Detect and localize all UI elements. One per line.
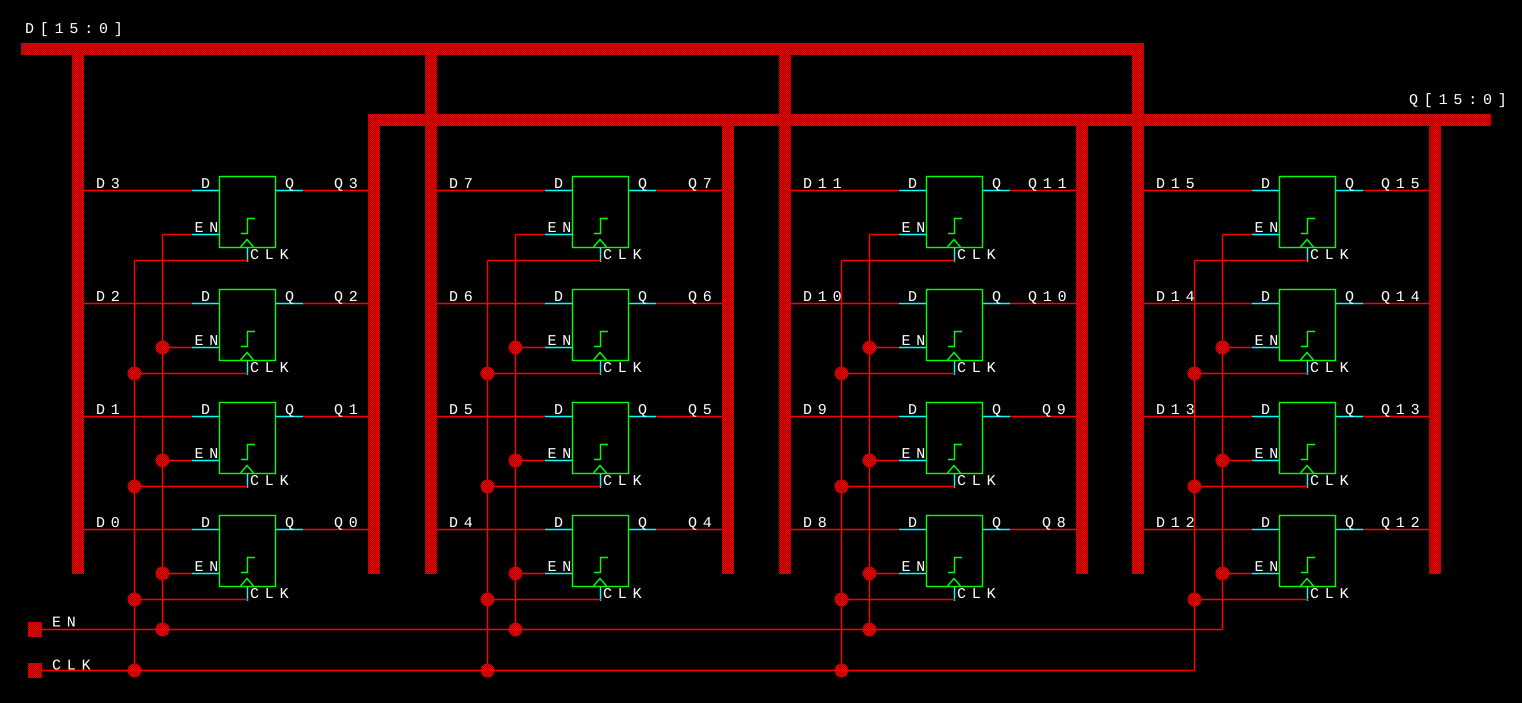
svg-text:CLK: CLK [603, 586, 647, 603]
svg-text:EN: EN [52, 615, 82, 632]
svg-text:CLK: CLK [1310, 360, 1354, 377]
svg-text:D9: D9 [803, 402, 833, 419]
svg-text:Q1: Q1 [334, 402, 364, 419]
svg-text:EN: EN [548, 333, 578, 350]
svg-text:D15: D15 [1156, 176, 1200, 193]
svg-text:D: D [908, 289, 917, 306]
svg-text:Q: Q [285, 402, 294, 419]
svg-text:Q: Q [1345, 289, 1354, 306]
svg-text:D5: D5 [449, 402, 479, 419]
svg-text:D1: D1 [96, 402, 126, 419]
svg-text:CLK: CLK [957, 473, 1001, 490]
svg-text:D: D [554, 176, 563, 193]
svg-text:D3: D3 [96, 176, 126, 193]
svg-text:CLK: CLK [603, 360, 647, 377]
svg-text:Q: Q [992, 402, 1001, 419]
svg-text:D: D [554, 402, 563, 419]
svg-text:D6: D6 [449, 289, 479, 306]
svg-text:CLK: CLK [603, 247, 647, 264]
svg-text:Q: Q [1345, 176, 1354, 193]
svg-text:EN: EN [902, 333, 932, 350]
svg-text:D2: D2 [96, 289, 126, 306]
svg-text:CLK: CLK [250, 473, 294, 490]
svg-text:Q7: Q7 [688, 176, 718, 193]
svg-text:Q15: Q15 [1381, 176, 1425, 193]
svg-text:Q: Q [992, 515, 1001, 532]
svg-text:D10: D10 [803, 289, 847, 306]
svg-text:Q9: Q9 [1042, 402, 1072, 419]
svg-text:CLK: CLK [250, 247, 294, 264]
svg-text:Q10: Q10 [1028, 289, 1072, 306]
svg-text:EN: EN [902, 446, 932, 463]
svg-text:D8: D8 [803, 515, 833, 532]
svg-text:D: D [908, 402, 917, 419]
svg-text:Q14: Q14 [1381, 289, 1425, 306]
svg-text:Q3: Q3 [334, 176, 364, 193]
svg-text:EN: EN [195, 220, 225, 237]
svg-text:D12: D12 [1156, 515, 1200, 532]
svg-text:CLK: CLK [957, 586, 1001, 603]
svg-text:EN: EN [1255, 333, 1285, 350]
svg-text:D: D [908, 176, 917, 193]
svg-text:EN: EN [548, 220, 578, 237]
svg-text:EN: EN [902, 559, 932, 576]
svg-text:Q[15:0]: Q[15:0] [1409, 92, 1513, 109]
svg-text:EN: EN [1255, 446, 1285, 463]
svg-text:Q: Q [638, 176, 647, 193]
svg-text:D0: D0 [96, 515, 126, 532]
svg-text:Q: Q [638, 289, 647, 306]
svg-text:Q12: Q12 [1381, 515, 1425, 532]
svg-text:D13: D13 [1156, 402, 1200, 419]
svg-text:D[15:0]: D[15:0] [25, 21, 129, 38]
svg-text:CLK: CLK [957, 360, 1001, 377]
svg-text:EN: EN [195, 446, 225, 463]
svg-text:Q13: Q13 [1381, 402, 1425, 419]
svg-text:Q: Q [285, 515, 294, 532]
svg-text:D: D [201, 515, 210, 532]
svg-text:D: D [908, 515, 917, 532]
svg-text:CLK: CLK [1310, 247, 1354, 264]
svg-text:D11: D11 [803, 176, 847, 193]
svg-text:D: D [1261, 515, 1270, 532]
svg-text:CLK: CLK [52, 658, 96, 675]
svg-text:D: D [1261, 176, 1270, 193]
svg-text:EN: EN [1255, 220, 1285, 237]
svg-text:EN: EN [902, 220, 932, 237]
svg-text:EN: EN [195, 333, 225, 350]
svg-text:CLK: CLK [957, 247, 1001, 264]
svg-text:D: D [554, 289, 563, 306]
svg-text:EN: EN [548, 559, 578, 576]
svg-text:D7: D7 [449, 176, 479, 193]
svg-text:EN: EN [1255, 559, 1285, 576]
svg-text:D: D [201, 402, 210, 419]
svg-text:Q2: Q2 [334, 289, 364, 306]
svg-text:EN: EN [548, 446, 578, 463]
svg-text:Q8: Q8 [1042, 515, 1072, 532]
svg-text:Q6: Q6 [688, 289, 718, 306]
svg-text:EN: EN [195, 559, 225, 576]
svg-text:Q0: Q0 [334, 515, 364, 532]
svg-text:CLK: CLK [1310, 586, 1354, 603]
svg-text:Q: Q [285, 289, 294, 306]
svg-text:Q: Q [992, 176, 1001, 193]
svg-text:Q: Q [638, 402, 647, 419]
svg-text:Q: Q [638, 515, 647, 532]
svg-text:CLK: CLK [603, 473, 647, 490]
svg-text:Q: Q [285, 176, 294, 193]
svg-text:D: D [201, 176, 210, 193]
svg-text:Q5: Q5 [688, 402, 718, 419]
svg-text:D: D [1261, 402, 1270, 419]
svg-text:CLK: CLK [250, 360, 294, 377]
svg-text:Q11: Q11 [1028, 176, 1072, 193]
svg-text:D14: D14 [1156, 289, 1200, 306]
svg-text:CLK: CLK [250, 586, 294, 603]
svg-text:CLK: CLK [1310, 473, 1354, 490]
svg-text:Q4: Q4 [688, 515, 718, 532]
svg-text:D: D [201, 289, 210, 306]
svg-text:D4: D4 [449, 515, 479, 532]
svg-text:Q: Q [992, 289, 1001, 306]
svg-text:D: D [1261, 289, 1270, 306]
svg-text:Q: Q [1345, 515, 1354, 532]
svg-text:D: D [554, 515, 563, 532]
svg-text:Q: Q [1345, 402, 1354, 419]
